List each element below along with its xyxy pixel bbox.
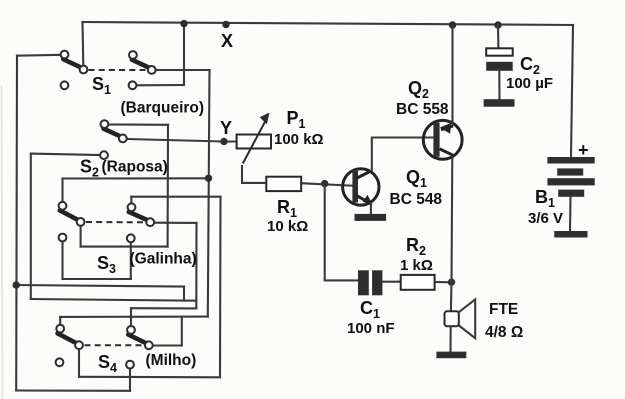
wire riser to rail from S1 right lower contact: [183, 24, 185, 85]
wire top supply rail: [83, 22, 574, 25]
svg-text:3/6 V: 3/6 V: [528, 210, 563, 227]
svg-text:4/8 Ω: 4/8 Ω: [485, 324, 523, 341]
wire rail to C2: [497, 25, 499, 48]
wire S3 left top contact riser: [61, 179, 63, 203]
svg-text:(Milho): (Milho): [146, 352, 197, 369]
wire left bus top horizontal to S1 left top contact: [17, 54, 61, 57]
wire S2 lower contact horizontal run: [31, 299, 197, 301]
wire C1 to R2: [382, 281, 400, 283]
svg-text:(Raposa): (Raposa): [102, 159, 168, 176]
wire S3 left pivot horizontal: [81, 246, 168, 248]
wire riser S4 right lower contact: [129, 368, 131, 391]
svg-text:Y: Y: [220, 118, 232, 138]
wire S2 top contact vertical: [167, 125, 169, 247]
wire S4 right pivot riser: [181, 317, 183, 346]
wire S4 left pivot drop: [78, 349, 80, 377]
wire rail to Q2 emitter: [451, 25, 453, 125]
battery B1: [547, 157, 594, 197]
potentiometer P1: [237, 113, 271, 183]
svg-text:(Galinha): (Galinha): [130, 251, 197, 268]
svg-text:X: X: [221, 31, 233, 51]
svg-text:100 nF: 100 nF: [347, 320, 395, 337]
wire S4 right pivot lead: [152, 344, 181, 346]
wire right outer vertical x220: [219, 197, 222, 378]
capacitor C1: [358, 270, 382, 295]
svg-text:10 kΩ: 10 kΩ: [267, 218, 308, 235]
switch S4: [56, 325, 153, 369]
wire S3 right top contact horizontal: [131, 196, 220, 198]
wire S3 right pivot vertical: [195, 223, 197, 309]
ground under speaker: [436, 352, 466, 359]
wire C2 to ground: [498, 69, 500, 99]
ground under C2: [484, 99, 515, 107]
speaker FTE: [445, 299, 476, 338]
wire R2 to junction: [435, 281, 452, 283]
resistor R1: [266, 177, 301, 191]
wire S3 right pivot lead: [154, 222, 197, 224]
wire junction to speaker: [450, 282, 453, 311]
resistor R2: [401, 275, 435, 290]
wire S1 right pivot lead: [156, 69, 210, 71]
ground under Q1: [355, 214, 387, 221]
wire short vertical drop x184: [183, 287, 185, 301]
junction dot rail-Q2: [449, 21, 456, 28]
wire S2 pivot to node Y and P1: [127, 139, 237, 142]
switch S2: [100, 120, 127, 159]
svg-text:FTE: FTE: [489, 301, 518, 318]
wire riser S3 right lower contact: [130, 242, 132, 279]
wire speaker to ground: [449, 326, 451, 351]
wire S3 left lower contact vertical: [61, 241, 63, 279]
switch S1: [61, 51, 156, 90]
wire S3 left top contact horizontal to junction: [63, 177, 209, 179]
node Y: [220, 138, 227, 145]
junction dot S1 pivot line: [205, 175, 212, 182]
junction dot R2-Q2-FTE: [448, 279, 455, 286]
node X: [222, 21, 229, 28]
wire Q1 collector to Q2 base: [372, 138, 434, 171]
wire left bus vertical: [15, 56, 18, 391]
junction dot rail-S1: [180, 20, 187, 27]
junction dot R1-Q1-C1: [321, 180, 328, 187]
svg-text:BC 548: BC 548: [390, 191, 443, 208]
wire S2 top contact lead: [108, 123, 168, 125]
wire left bus bottom horizontal: [16, 389, 130, 391]
wire linking S3 lower contacts: [63, 278, 131, 280]
wire rail to battery: [571, 25, 573, 157]
wire riser S4 right top contact: [130, 308, 132, 326]
wire S2 lower contact vertical: [30, 154, 32, 299]
wire junction down to C1: [325, 184, 358, 281]
capacitor C2: [486, 48, 513, 71]
wire R1 to Q1 base: [301, 183, 352, 186]
transistor Q2: [423, 120, 462, 159]
wire riser from rail to S1 left pivot: [81, 22, 84, 66]
transistor Q1: [343, 169, 379, 205]
svg-text:100 µF: 100 µF: [506, 75, 553, 92]
wire Q2 collector down to junction: [450, 157, 453, 283]
svg-text:1 kΩ: 1 kΩ: [400, 257, 433, 274]
wire from left bus junction to the right: [16, 285, 184, 287]
ground under battery: [554, 231, 587, 238]
wire battery to ground: [569, 197, 572, 231]
svg-text:BC 558: BC 558: [396, 101, 449, 118]
junction dot rail-C2: [494, 21, 501, 28]
svg-text:+: +: [578, 140, 589, 160]
junction dot left bus: [13, 281, 20, 288]
svg-text:(Barqueiro): (Barqueiro): [121, 100, 205, 117]
wire Q1 emitter to ground: [370, 204, 372, 215]
wire S3 right top contact riser: [130, 197, 132, 204]
wire S1 right pivot long vertical: [208, 70, 210, 317]
wire bottom rail to S4 left pivot: [79, 376, 220, 379]
wire riser S4 left top contact: [59, 317, 61, 325]
wire S2 lower contact lead: [31, 154, 101, 155]
wire to S4 right top contact: [131, 307, 196, 309]
switch S3: [59, 202, 155, 242]
wire to S4 left top contact: [60, 316, 208, 318]
svg-text:100 kΩ: 100 kΩ: [274, 131, 324, 148]
wire S3 left pivot riser: [80, 225, 82, 246]
wire S1 right lower contact lead: [136, 84, 184, 86]
